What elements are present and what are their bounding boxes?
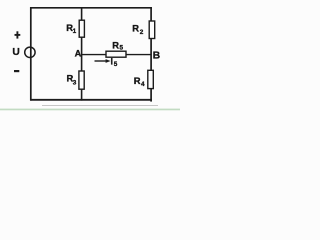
+ (positive terminal mark) xyxy=(15,31,21,38)
resistor R3 xyxy=(79,71,84,89)
svg-text:U: U xyxy=(12,47,19,58)
resistor R5 xyxy=(106,51,126,57)
svg-text:R: R xyxy=(112,39,119,50)
current arrow I5 xyxy=(95,59,111,63)
svg-text:1: 1 xyxy=(73,28,77,35)
wire bottom xyxy=(30,99,152,101)
svg-text:B: B xyxy=(153,51,160,62)
svg-text:A: A xyxy=(75,49,82,59)
svg-text:4: 4 xyxy=(141,81,145,88)
svg-text:2: 2 xyxy=(140,29,144,36)
resistor R4 xyxy=(148,70,154,88)
svg-text:5: 5 xyxy=(114,61,118,68)
wire right branch (R2/R4, node B) xyxy=(150,7,152,102)
svg-text:3: 3 xyxy=(73,80,77,87)
svg-text:5: 5 xyxy=(120,45,124,52)
- (negative terminal mark) xyxy=(14,70,19,72)
wire bridge from node A to node B xyxy=(82,54,152,56)
resistor R1 xyxy=(79,20,84,37)
wire top (from source to right branch) xyxy=(30,7,152,9)
wire middle branch (R1/R3, node A) xyxy=(81,7,83,101)
svg-text:I: I xyxy=(111,57,114,67)
wire left branch xyxy=(30,7,32,101)
svg-text:R: R xyxy=(132,23,139,34)
voltage source U xyxy=(25,47,35,57)
resistor R2 xyxy=(149,21,155,39)
svg-text:R: R xyxy=(134,75,141,86)
